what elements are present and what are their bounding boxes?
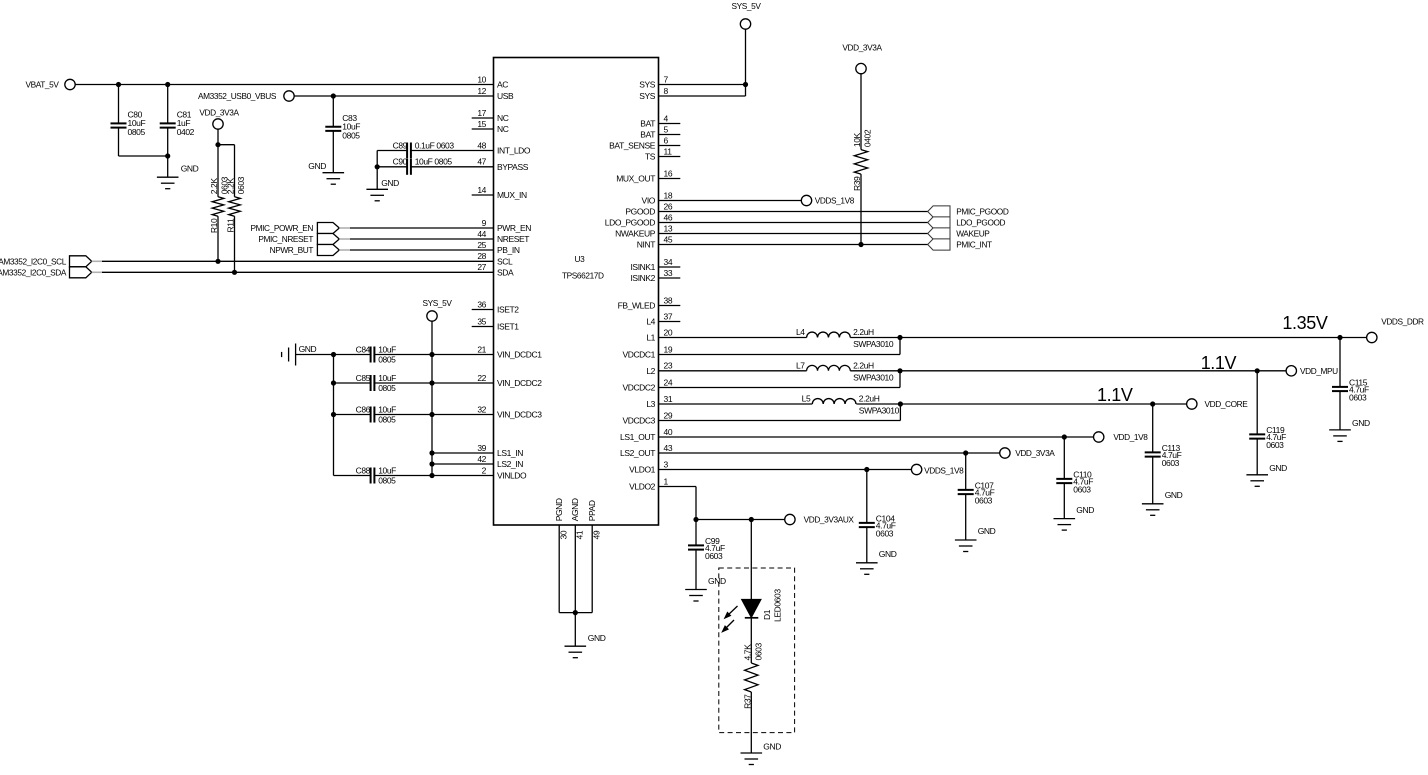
IC U3 right pin 6 BAT_SENSE xyxy=(609,135,680,150)
ground below C89/C90 xyxy=(366,178,399,201)
IC U3 right pin 16 MUX_OUT xyxy=(616,168,680,183)
svg-text:NINT: NINT xyxy=(637,240,655,250)
svg-text:PPAD: PPAD xyxy=(587,500,597,521)
svg-text:41: 41 xyxy=(575,530,585,539)
svg-text:48: 48 xyxy=(477,140,486,150)
svg-text:L4: L4 xyxy=(646,317,655,327)
svg-text:GND: GND xyxy=(1076,505,1094,515)
svg-text:1.35V: 1.35V xyxy=(1282,313,1327,333)
IC U3 right pin 13 NWAKEUP xyxy=(615,223,673,238)
svg-text:37: 37 xyxy=(664,311,673,321)
svg-text:29: 29 xyxy=(664,410,673,420)
wire VBAT_5V to pin 10 AC xyxy=(75,84,494,86)
svg-text:BAT: BAT xyxy=(640,130,655,140)
svg-text:45: 45 xyxy=(664,234,673,244)
svg-text:SYS: SYS xyxy=(639,80,656,90)
svg-text:8: 8 xyxy=(664,86,669,96)
wire C110 bottom lead xyxy=(1063,483,1065,519)
IC U3 left pin 35 ISET1 xyxy=(472,316,520,331)
IC U3 bottom pin 41 AGND xyxy=(570,498,584,539)
IC U3 bottom pin 30 PGND xyxy=(554,498,568,539)
IC U3 right pin 18 VIO xyxy=(642,190,673,205)
wire LS2_IN link xyxy=(432,463,494,465)
dashed DNI box around D1 R37 xyxy=(719,568,795,733)
wire L1 to inductor L4 xyxy=(659,337,807,339)
svg-text:GND: GND xyxy=(308,161,326,171)
svg-text:MUX_OUT: MUX_OUT xyxy=(616,174,655,184)
svg-text:AGND: AGND xyxy=(570,498,580,521)
svg-text:2.2K: 2.2K xyxy=(209,178,219,195)
svg-text:18: 18 xyxy=(664,190,673,200)
IC U3 left pin 12 USB xyxy=(477,86,514,101)
svg-text:2.2K: 2.2K xyxy=(226,178,236,195)
svg-text:4.7K: 4.7K xyxy=(742,644,752,661)
node junction C90 left xyxy=(375,164,380,169)
ground sideways left xyxy=(282,344,317,366)
svg-text:SYS_5V: SYS_5V xyxy=(732,1,762,11)
IC U3 right pin 33 ISINK2 xyxy=(630,268,680,283)
svg-text:PWR_EN: PWR_EN xyxy=(497,223,531,233)
svg-text:PGOOD: PGOOD xyxy=(625,207,655,217)
svg-text:42: 42 xyxy=(477,454,486,464)
wire AGND down xyxy=(574,525,576,613)
svg-text:13: 13 xyxy=(664,223,673,233)
capacitor C81 xyxy=(160,110,195,138)
IC U3 bottom pin 49 PPAD xyxy=(587,500,601,539)
svg-text:25: 25 xyxy=(477,240,486,250)
svg-text:10K: 10K xyxy=(852,132,862,147)
IC U3 right pin 46 LDO_PGOOD xyxy=(605,212,673,227)
power port VDD_CORE xyxy=(1187,399,1249,409)
svg-text:GND: GND xyxy=(1352,418,1370,428)
capacitor C99 4.7uF 0603 xyxy=(688,536,725,561)
power port VDD_1V8 xyxy=(1094,432,1149,442)
svg-text:39: 39 xyxy=(477,443,486,453)
svg-text:SYS_5V: SYS_5V xyxy=(423,298,453,308)
wire GND cap bus vertical xyxy=(333,355,335,476)
wire PWR_EN net xyxy=(350,227,494,229)
svg-text:LS2_OUT: LS2_OUT xyxy=(620,448,655,458)
svg-text:GND: GND xyxy=(708,576,726,586)
wire VLDO2 net xyxy=(659,487,786,520)
net flag PMIC_NRESET xyxy=(258,234,339,245)
svg-text:SYS: SYS xyxy=(639,91,656,101)
svg-text:0603: 0603 xyxy=(1266,440,1284,450)
power port SYS_5V left xyxy=(423,298,453,321)
node junction cap bus 2 xyxy=(331,380,336,385)
node junction R10 on SCL xyxy=(215,259,220,264)
svg-text:VDD_3V3AUX: VDD_3V3AUX xyxy=(804,515,855,525)
svg-text:PMIC_NRESET: PMIC_NRESET xyxy=(258,234,313,244)
IC U3 left pin 9 PWR_EN xyxy=(482,218,532,233)
U3 part value TPS65217D xyxy=(562,271,604,281)
wire VDD_3V3A down xyxy=(217,129,219,145)
svg-text:4: 4 xyxy=(664,113,669,123)
capacitor C90 10uF 0805 xyxy=(393,157,453,175)
wire AGND to ground xyxy=(574,613,576,647)
wire C99 top lead xyxy=(695,520,697,546)
inductor L5 2.2uH SWPA3010 xyxy=(802,394,900,416)
svg-text:0603: 0603 xyxy=(876,529,894,539)
node junction AGND xyxy=(573,610,578,615)
power port VDDS_1V8 on VLDO1 xyxy=(911,464,964,475)
wire C89-C90 left link xyxy=(376,151,378,190)
ground below C115 xyxy=(1329,418,1370,441)
wire C80 top lead xyxy=(118,85,120,124)
wire C110 top lead xyxy=(1063,437,1065,479)
node junction L7 output xyxy=(897,368,902,373)
wire SCL stub gray xyxy=(92,260,102,262)
IC U3 left pin 2 VINLDO xyxy=(482,465,527,480)
svg-text:VLDO2: VLDO2 xyxy=(629,482,656,492)
IC U3 left pin 47 BYPASS xyxy=(477,157,528,172)
wire VLDO1 net xyxy=(659,469,912,471)
svg-text:PMIC_POWR_EN: PMIC_POWR_EN xyxy=(250,223,313,233)
svg-text:LS1_OUT: LS1_OUT xyxy=(620,432,655,442)
IC U3 right pin 37 L4 xyxy=(646,311,680,326)
svg-text:L4: L4 xyxy=(796,327,805,337)
svg-text:AM3352_I2C0_SCL: AM3352_I2C0_SCL xyxy=(0,256,67,266)
ground below C80 C81 xyxy=(157,164,199,189)
svg-text:30: 30 xyxy=(558,530,568,539)
svg-text:0805: 0805 xyxy=(378,354,396,364)
node junction L4 output xyxy=(897,335,902,340)
power port VDDS_DDR xyxy=(1367,316,1424,342)
wire R39 lower lead xyxy=(860,174,862,244)
node junction SYS pin7 xyxy=(743,82,748,87)
svg-text:9: 9 xyxy=(482,218,487,228)
svg-text:0603: 0603 xyxy=(1162,458,1180,468)
svg-text:GND: GND xyxy=(763,742,781,752)
wire C89 left lead xyxy=(377,150,407,152)
power port VDD_3V3AUX xyxy=(785,514,855,524)
svg-text:12: 12 xyxy=(477,86,486,96)
power port VDDS_1V8 on VIO xyxy=(801,195,854,205)
wire R39 upper lead xyxy=(860,73,862,149)
wire C90 left lead xyxy=(377,166,407,168)
IC U3 right pin 20 L1 xyxy=(646,327,672,342)
IC U3 left pin 14 MUX_IN xyxy=(472,185,527,200)
svg-text:ISINK1: ISINK1 xyxy=(630,262,655,272)
wire L7 to VDD_MPU xyxy=(850,370,1286,372)
node junction C115 tap xyxy=(1337,335,1342,340)
svg-text:U3: U3 xyxy=(575,254,586,264)
svg-text:INT_LDO: INT_LDO xyxy=(497,146,531,156)
capacitor C80 xyxy=(111,110,146,138)
wire VDCDC3 feedback xyxy=(659,404,901,421)
wire C85 left lead xyxy=(334,382,371,384)
wire C80 bottom lead xyxy=(119,128,168,157)
wire VDCDC1 feedback xyxy=(659,338,901,355)
IC U3 right pin 26 PGOOD xyxy=(625,201,672,216)
LED emission arrow 1 xyxy=(724,606,738,619)
node junction SYS bus y475.5 xyxy=(429,473,434,478)
wire C104 top lead xyxy=(866,470,868,524)
svg-text:C86: C86 xyxy=(356,404,371,414)
IC U3 right pin 34 ISINK1 xyxy=(630,257,680,272)
node junction C113 tap xyxy=(1150,401,1155,406)
wire C81 top lead xyxy=(167,85,169,124)
wire GND to cap bus xyxy=(296,354,334,356)
svg-text:GND: GND xyxy=(1165,490,1183,500)
power port VBAT_5V xyxy=(25,79,75,89)
svg-text:10uF: 10uF xyxy=(378,373,396,383)
svg-text:SCL: SCL xyxy=(497,256,513,266)
wire SCL net xyxy=(102,260,494,262)
svg-text:C85: C85 xyxy=(356,373,371,383)
power port VDD_3V3A right xyxy=(842,43,882,74)
svg-text:SDA: SDA xyxy=(497,267,514,277)
IC U3 right pin 24 VDCDC2 xyxy=(622,377,672,392)
wire NRESET net xyxy=(350,238,494,240)
IC U3 left pin 28 SCL xyxy=(477,251,513,266)
svg-text:SWPA3010: SWPA3010 xyxy=(853,372,894,382)
svg-text:GND: GND xyxy=(588,633,606,643)
node junction SYS bus y464 xyxy=(429,461,434,466)
IC U3 left pin 10 AC xyxy=(477,74,508,89)
IC U3 right pin 38 FB_WLED xyxy=(618,295,681,310)
wire C84 left lead xyxy=(334,354,371,356)
wire R10-R11 top link xyxy=(218,145,235,197)
wire PGND down xyxy=(558,525,560,613)
svg-text:0805: 0805 xyxy=(378,414,396,424)
svg-text:46: 46 xyxy=(664,212,673,222)
node junction C119 tap xyxy=(1255,368,1260,373)
wire USB VBUS to pin 12 xyxy=(294,95,494,97)
svg-text:14: 14 xyxy=(477,185,486,195)
ground below C110 xyxy=(1054,505,1095,530)
IC U3 left pin 44 NRESET xyxy=(477,229,529,244)
svg-text:BYPASS: BYPASS xyxy=(497,162,529,172)
svg-text:SWPA3010: SWPA3010 xyxy=(853,339,894,349)
IC U3 left pin 42 LS2_IN xyxy=(477,454,523,469)
svg-text:17: 17 xyxy=(477,108,486,118)
ground below R37 xyxy=(741,742,782,765)
power port AM3352_USB0_VBUS xyxy=(198,91,294,101)
IC U3 left pin 25 PB_IN xyxy=(477,240,519,255)
svg-text:VDD_MPU: VDD_MPU xyxy=(1300,366,1338,376)
svg-text:BAT: BAT xyxy=(640,119,655,129)
capacitor C89 0.1uF 0603 xyxy=(393,140,455,158)
IC U3 right pin 8 SYS xyxy=(639,86,668,101)
svg-text:PMIC_PGOOD: PMIC_PGOOD xyxy=(956,207,1009,217)
svg-text:27: 27 xyxy=(477,262,486,272)
svg-text:VDD_3V3A: VDD_3V3A xyxy=(1015,448,1055,458)
wire L3 to inductor L5 xyxy=(659,403,813,405)
node junction R10/R11 top xyxy=(215,142,220,147)
svg-text:GND: GND xyxy=(181,164,199,174)
wire C83 bottom lead xyxy=(332,131,334,173)
svg-text:VDDS_1V8: VDDS_1V8 xyxy=(924,466,964,476)
wire R11 lower lead xyxy=(234,216,236,272)
wire PB_IN net xyxy=(350,249,494,251)
capacitor C113 4.7uF 0603 xyxy=(1145,443,1182,468)
LED emission arrow 2 xyxy=(721,620,734,633)
svg-text:NPWR_BUT: NPWR_BUT xyxy=(270,245,314,255)
capacitor C83 xyxy=(325,113,360,141)
net flag LDO_PGOOD xyxy=(928,217,1006,228)
wire LS1_OUT net xyxy=(659,436,1095,438)
svg-text:0603: 0603 xyxy=(975,496,993,506)
IC U3 right pin 45 NINT xyxy=(637,234,673,249)
voltage label 1.1V MPU xyxy=(1201,353,1237,373)
capacitor C110 4.7uF 0603 xyxy=(1056,469,1093,494)
IC U3 left pin 32 VIN_DCDC3 xyxy=(477,404,542,419)
svg-text:C88: C88 xyxy=(356,465,371,475)
node junction SYS bus y414.5 xyxy=(429,412,434,417)
svg-text:C89: C89 xyxy=(393,140,408,150)
svg-text:5: 5 xyxy=(664,124,669,134)
svg-text:VDD_CORE: VDD_CORE xyxy=(1205,399,1249,409)
IC U3 right pin 40 LS1_OUT xyxy=(620,427,673,442)
IC U3 left pin 21 VIN_DCDC1 xyxy=(477,344,542,359)
capacitor C84 10uF 0805 xyxy=(356,344,397,364)
capacitor C104 4.7uF 0603 xyxy=(859,513,896,538)
svg-text:LED0603: LED0603 xyxy=(773,589,783,622)
IC U3 TPS65217D PMIC body xyxy=(494,58,659,526)
node junction L5 output xyxy=(898,401,903,406)
wire C115 bottom lead xyxy=(1339,391,1341,430)
svg-text:2: 2 xyxy=(482,465,487,475)
svg-text:LDO_PGOOD: LDO_PGOOD xyxy=(605,218,656,228)
net flag PMIC_PGOOD xyxy=(928,206,1009,217)
svg-text:LDO_PGOOD: LDO_PGOOD xyxy=(956,218,1005,228)
wire C81 bottom lead xyxy=(167,128,169,178)
svg-text:VDD_3V3A: VDD_3V3A xyxy=(842,43,882,53)
svg-text:22: 22 xyxy=(477,373,486,383)
wire VDCDC2 feedback xyxy=(659,371,901,388)
svg-text:20: 20 xyxy=(664,327,673,337)
net flag NPWR_BUT xyxy=(270,245,340,256)
svg-text:VINLDO: VINLDO xyxy=(497,471,527,481)
wire R10 lower lead xyxy=(217,216,219,261)
IC U3 right pin 1 VLDO2 xyxy=(629,476,668,491)
resistor R11 2.2K 0603 xyxy=(226,176,247,232)
svg-text:0603: 0603 xyxy=(705,551,723,561)
capacitor C119 4.7uF 0603 xyxy=(1249,425,1286,450)
power port VDD_3V3A mid xyxy=(1000,448,1056,458)
wire L2 to inductor L7 xyxy=(659,370,807,372)
svg-text:0805: 0805 xyxy=(128,127,146,137)
node junction R39 on NINT xyxy=(858,242,863,247)
wire NWAKEUP net xyxy=(659,233,928,235)
wire C84 right lead xyxy=(375,354,494,356)
wire PPAD down xyxy=(591,525,593,613)
wire C119 bottom lead xyxy=(1256,439,1258,475)
capacitor C88 10uF 0805 xyxy=(356,465,397,485)
svg-text:24: 24 xyxy=(664,377,673,387)
svg-text:GND: GND xyxy=(879,549,897,559)
svg-text:AM3352_USB0_VBUS: AM3352_USB0_VBUS xyxy=(198,91,277,101)
svg-text:ISINK2: ISINK2 xyxy=(630,273,655,283)
svg-text:L1: L1 xyxy=(646,333,655,343)
svg-text:SWPA3010: SWPA3010 xyxy=(859,406,900,416)
resistor R10 2.2K 0603 xyxy=(209,176,230,233)
wire SYS pin7 link xyxy=(659,84,746,86)
svg-text:10uF: 10uF xyxy=(378,344,396,354)
svg-text:VDD_3V3A: VDD_3V3A xyxy=(199,108,239,118)
power port VDD_MPU xyxy=(1286,366,1338,376)
wire SYS_5V vertical xyxy=(745,29,747,96)
svg-text:1.1V: 1.1V xyxy=(1201,353,1237,373)
wire bottom join xyxy=(559,612,592,614)
svg-text:NWAKEUP: NWAKEUP xyxy=(615,229,656,239)
resistor R39 10K 0402 xyxy=(852,129,873,191)
net flag AM3352_I2C0_SDA xyxy=(0,267,92,278)
svg-text:VDCDC3: VDCDC3 xyxy=(622,416,655,426)
svg-text:10uF 0805: 10uF 0805 xyxy=(415,157,453,167)
svg-text:AC: AC xyxy=(497,80,508,90)
wire PB_IN stub gray xyxy=(339,249,350,251)
ground below C113 xyxy=(1142,490,1183,515)
ground below C107 xyxy=(955,526,996,552)
node junction C80 on VBAT xyxy=(116,82,121,87)
net flag WAKEUP xyxy=(928,228,991,239)
svg-text:0805: 0805 xyxy=(378,475,396,485)
inductor L7 2.2uH SWPA3010 xyxy=(796,360,894,382)
wire C88 left lead xyxy=(334,475,371,477)
svg-text:2.2uH: 2.2uH xyxy=(853,327,874,337)
svg-text:VBAT_5V: VBAT_5V xyxy=(25,80,59,90)
IC U3 left pin 17 NC xyxy=(472,108,509,123)
power port SYS_5V top xyxy=(732,1,762,29)
ground below C83 xyxy=(308,161,344,184)
node junction C80/C81 bottom xyxy=(165,153,170,158)
svg-text:NC: NC xyxy=(497,124,509,134)
wire R37 lower lead xyxy=(750,692,752,753)
svg-text:C90: C90 xyxy=(393,157,408,167)
svg-text:1: 1 xyxy=(664,476,669,486)
wire LDO_PGOOD net xyxy=(659,222,928,224)
svg-text:36: 36 xyxy=(477,299,486,309)
svg-text:15: 15 xyxy=(477,119,486,129)
svg-text:0.1uF 0603: 0.1uF 0603 xyxy=(415,140,455,150)
svg-text:L2: L2 xyxy=(646,366,655,376)
node junction R11 on SDA xyxy=(232,270,237,275)
svg-text:GND: GND xyxy=(1269,463,1287,473)
svg-text:40: 40 xyxy=(664,427,673,437)
wire C86 left lead xyxy=(334,414,371,416)
svg-text:34: 34 xyxy=(664,257,673,267)
svg-text:USB: USB xyxy=(497,91,514,101)
wire C107 bottom lead xyxy=(965,494,967,540)
node junction cap bus 1 xyxy=(331,352,336,357)
net flag PMIC_POWR_EN xyxy=(250,223,339,234)
svg-text:0603: 0603 xyxy=(753,643,763,661)
IC U3 left pin 48 INT_LDO xyxy=(477,140,531,155)
svg-text:0603: 0603 xyxy=(1349,393,1367,403)
svg-text:VDD_1V8: VDD_1V8 xyxy=(1113,432,1148,442)
node junction C81 on VBAT xyxy=(165,82,170,87)
svg-text:D1: D1 xyxy=(762,609,772,620)
wire C89 right lead to pin 48 xyxy=(411,150,494,152)
wire C119 top lead xyxy=(1256,371,1258,435)
IC U3 right pin 5 BAT xyxy=(640,124,680,139)
node junction C104 tap xyxy=(864,467,869,472)
svg-text:GND: GND xyxy=(978,526,996,536)
IC U3 left pin 39 LS1_IN xyxy=(477,443,523,458)
svg-text:L7: L7 xyxy=(796,360,805,370)
voltage label 1.1V CORE xyxy=(1097,385,1133,405)
wire C90 right lead to pin 47 xyxy=(411,166,494,168)
node junction C99 tap xyxy=(693,517,698,522)
svg-text:PGND: PGND xyxy=(554,498,564,521)
svg-text:10uF: 10uF xyxy=(378,465,396,475)
svg-text:6: 6 xyxy=(664,135,669,145)
svg-text:FB_WLED: FB_WLED xyxy=(618,301,656,311)
wire C113 bottom lead xyxy=(1152,457,1154,504)
IC U3 left pin 27 SDA xyxy=(477,262,514,277)
